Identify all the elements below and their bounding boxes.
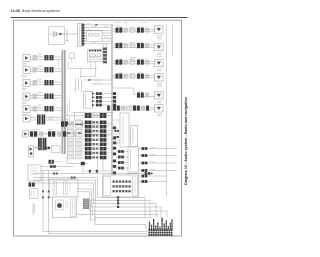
rotated label trio (76, 79, 82, 93)
connector strip C1 (78, 24, 84, 47)
main connector column K2 (100, 121, 107, 160)
label marks right of K2 (107, 122, 111, 157)
marks between columns (92, 121, 98, 159)
speaker RS6 row right (107, 105, 163, 116)
extra light connector blocks right rows (127, 28, 135, 110)
bus end terminal (49, 160, 51, 164)
main connector column K1 (85, 121, 92, 160)
AMP pin grid (113, 181, 131, 193)
M1 labels (36, 147, 41, 149)
right return wire 2 (172, 24, 174, 56)
Q1 feed wires (113, 120, 120, 143)
aerial amplifier box A1 (49, 27, 65, 44)
M3 wires right (41, 166, 73, 168)
speaker RS1 row right (113, 26, 163, 39)
wire with arrow mid (84, 79, 111, 81)
speaker RS5 row right (113, 88, 163, 103)
N4 wires right (139, 175, 167, 183)
radio head unit A3 (88, 50, 103, 62)
AMP top wires (33, 171, 144, 174)
connector row top of mosaic (85, 113, 92, 118)
box N4 (128, 174, 139, 186)
legend column hatch (148, 223, 173, 227)
connector pairs on A4 wires (96, 92, 102, 106)
wire mid second (91, 83, 111, 85)
vertical label M5 (33, 203, 35, 215)
left row wire labels (37, 56, 59, 133)
navigation tall box N2 (131, 126, 138, 147)
legend text block (149, 218, 173, 230)
dark module under row B (38, 138, 42, 150)
junction blob (66, 157, 68, 164)
bus annotation dashes (59, 60, 70, 126)
svg-text:12•36 Body electrical systems: 12•36 Body electrical systems (11, 9, 61, 13)
harness ticks (117, 196, 119, 208)
box M2 (52, 146, 61, 153)
drop wires to radio (102, 44, 104, 50)
mosaic drop wires (97, 159, 99, 170)
speaker RS2 row right (113, 43, 163, 56)
wire fan from C1 (85, 25, 112, 44)
radio lower wires (68, 62, 97, 79)
unit M1 left lower (29, 146, 34, 157)
strip box B4 (91, 200, 96, 220)
wire antenna lead (57, 33, 78, 35)
arrow on wire (96, 24, 99, 26)
speaker LS4 left row (22, 93, 62, 104)
svg-text:Diagram 10 : Audio system - Ra: Diagram 10 : Audio system - Radio and na… (184, 96, 188, 185)
A4 wires to bus (94, 94, 112, 105)
M3 connector row below (29, 183, 35, 187)
speaker RS3 row right (113, 58, 163, 71)
ticks on harness top wires (53, 173, 76, 185)
N3 rows left (116, 150, 128, 169)
speaker LS5 left row (22, 105, 62, 115)
box B2 CD autochanger (53, 197, 77, 218)
junction wire (73, 112, 114, 114)
A4 pins (92, 93, 94, 106)
speaker LS3 left row (22, 79, 62, 90)
speaker LS6 left row (23, 115, 62, 125)
AMP strip right (133, 177, 138, 196)
supply bus bar left (62, 50, 66, 154)
motor symbol (57, 203, 62, 208)
pin header column left of K1 (67, 121, 82, 159)
display unit box A2 (87, 31, 103, 42)
main vertical bus (110, 24, 112, 193)
connector pair M1 (45, 147, 47, 150)
speaker LS2 left row (22, 66, 62, 77)
bus tap blocks (113, 92, 116, 106)
fan wire labels (87, 24, 109, 43)
harness marks mid (89, 170, 91, 173)
grey connector block B3 (83, 199, 89, 210)
box M4 (30, 189, 39, 199)
small relay box mid (69, 53, 75, 58)
connector C1 pins (82, 24, 84, 44)
ticks on vertical wires (42, 191, 49, 199)
unit on row B (23, 131, 29, 137)
amplifier unit AMP (103, 175, 139, 197)
arrow on aerial wire (60, 33, 63, 36)
long vertical wires left (43, 171, 148, 232)
N3 wires right (139, 147, 178, 172)
legend base text rows (149, 229, 173, 236)
AMP grid threads (112, 182, 132, 192)
diagram frame (14, 20, 182, 236)
speaker RS4 row right (113, 74, 163, 87)
aerial symbol (50, 31, 57, 37)
mast tick (66, 30, 68, 41)
connector row B (22, 131, 112, 136)
header rule (11, 17, 188, 18)
radio pins top (89, 50, 101, 52)
wire name ticks right rows (118, 27, 143, 105)
connector designation labels (31, 23, 148, 130)
speaker LS1 left row (22, 54, 62, 65)
box B1 (50, 179, 79, 197)
bus tap blocks lower (113, 127, 116, 175)
CD changer box A4 (84, 92, 93, 109)
staircase harness wires (33, 178, 167, 230)
connector column C2 (103, 48, 107, 64)
bus label (66, 103, 68, 126)
navigation unit Q1 (120, 113, 129, 147)
right return wire (166, 24, 168, 197)
box M3 left (28, 165, 41, 181)
box N3 (128, 147, 139, 172)
connector row A (60, 121, 112, 126)
